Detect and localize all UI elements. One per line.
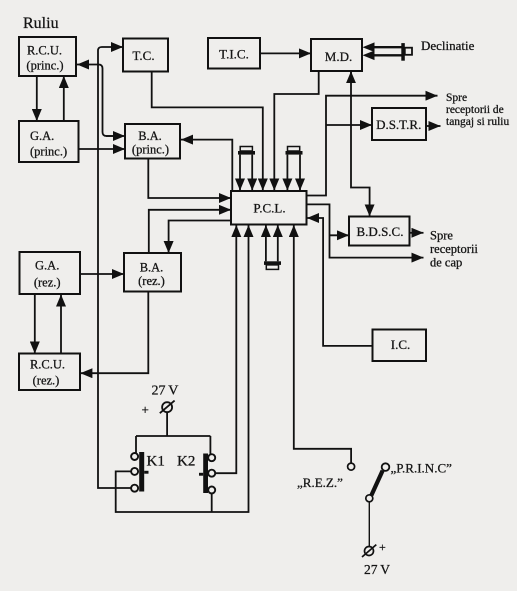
svg-text:K2: K2 — [177, 454, 195, 470]
svg-text:Spre: Spre — [446, 92, 467, 104]
svg-text:B.A.: B.A. — [138, 129, 162, 143]
switch contact R.E.Z. — [348, 463, 355, 470]
wire D.S.T.R. output arrow — [427, 125, 441, 127]
svg-text:B.D.S.C.: B.D.S.C. — [357, 224, 404, 239]
svg-text:K1: K1 — [147, 454, 165, 470]
wire P.C.L. top-left corner to B.A.(princ.) right side — [181, 140, 232, 191]
block D.S.T.R. — [372, 108, 426, 140]
wire M.D. bottom left down into P.C.L. top — [274, 71, 318, 190]
svg-text:T.I.C.: T.I.C. — [219, 47, 249, 62]
svg-text:Spre: Spre — [430, 229, 453, 243]
svg-text:M.D.: M.D. — [325, 49, 352, 64]
wire G.A.(rez.) to B.A.(rez.) — [80, 273, 124, 275]
plug P3 below P.C.L. — [264, 225, 281, 269]
svg-text:R.C.U.: R.C.U. — [27, 44, 62, 58]
svg-text:receptorii: receptorii — [430, 242, 478, 256]
wire G.A.(princ.) up to R.C.U.(princ.) — [63, 76, 65, 121]
block B.A. (rez.) — [124, 253, 181, 292]
svg-text:27 V: 27 V — [152, 384, 179, 399]
svg-text:(rez.): (rez.) — [138, 274, 165, 288]
svg-text:R.C.U.: R.C.U. — [30, 358, 65, 372]
svg-text:B.A.: B.A. — [140, 261, 164, 275]
declinatie shaft symbol — [363, 42, 413, 60]
svg-text:(rez.): (rez.) — [33, 373, 60, 387]
block R.C.U. (rez.) — [19, 354, 80, 391]
wire branch into D.S.T.R. — [326, 124, 372, 126]
plug P2 above P.C.L. — [286, 147, 303, 191]
wire P.C.L. left down into B.A.(rez.) top — [169, 221, 231, 254]
wire into R.C.U.(princ.) right side with jog down to B.A.(princ.) input — [99, 65, 114, 137]
wire G.A.(princ.) to B.A.(princ.) — [79, 148, 126, 150]
svg-text:I.C.: I.C. — [391, 337, 411, 352]
svg-text:receptorii de: receptorii de — [446, 104, 504, 116]
wire B.A.(rez.) top into P.C.L. left — [149, 210, 231, 253]
wire R.C.U.(rez.) up to G.A.(rez.) — [60, 295, 62, 354]
connector symbol 27V top — [160, 401, 175, 414]
relay contact K1 — [131, 452, 148, 492]
wire P.C.L. bottom to bottom rail (K1 middle / K2 bottom net) — [116, 225, 249, 512]
plug P1 above P.C.L. — [238, 147, 255, 191]
wire branch into B.D.S.C. — [330, 234, 350, 236]
svg-text:P.C.L.: P.C.L. — [253, 201, 285, 216]
block T.I.C. — [208, 38, 260, 69]
svg-text:T.C.: T.C. — [132, 48, 154, 63]
wire B.D.S.C. output arrow — [410, 232, 424, 234]
wire P.C.L. right up to Spre-tangaj arrow — [307, 96, 438, 196]
svg-text:D.S.T.R.: D.S.T.R. — [376, 117, 421, 132]
svg-text:(princ.): (princ.) — [30, 145, 67, 159]
wire R.C.U.(princ.) down to G.A.(princ.) — [36, 76, 38, 121]
wire P.C.L. right down to Spre-de-cap arrow — [307, 204, 424, 257]
wire K1-bottom-contact to T.C. input (long left vertical) — [98, 47, 131, 488]
block T.C. — [123, 39, 168, 72]
svg-text:G.A.: G.A. — [35, 259, 59, 273]
wire B.A.(princ.) bottom into P.C.L. left — [148, 159, 231, 199]
svg-text:G.A.: G.A. — [30, 129, 54, 143]
block B.D.S.C. — [349, 217, 410, 246]
wire T.I.C. to M.D. — [261, 52, 312, 54]
wire I.C. to P.C.L. right side — [307, 218, 373, 346]
block P.C.L. — [231, 191, 307, 225]
block B.A. (princ.) — [125, 124, 180, 159]
svg-text:27 V: 27 V — [364, 562, 390, 577]
block G.A. (rez.) — [20, 252, 81, 294]
svg-text:Declinatie: Declinatie — [421, 38, 475, 53]
block G.A. (princ.) — [19, 121, 79, 162]
svg-text:Ruliu: Ruliu — [23, 15, 59, 32]
svg-text:+: + — [142, 402, 149, 417]
wire T.C. down and right into P.C.L. top — [152, 72, 263, 191]
svg-text:+: + — [379, 540, 386, 554]
relay contact K2 — [199, 454, 215, 494]
switch contact P.R.I.N.C with lever — [366, 463, 390, 501]
wire P.C.L. bottom to K2 middle contact — [215, 225, 236, 473]
wire up into M.D. bottom and down to B.D.S.C. top — [350, 71, 352, 83]
block M.D. — [311, 39, 362, 71]
svg-text:„P.R.I.N.C”: „P.R.I.N.C” — [391, 461, 453, 476]
svg-text:tangaj si ruliu: tangaj si ruliu — [446, 116, 509, 128]
svg-text:(princ.): (princ.) — [26, 59, 63, 73]
connector symbol 27V bottom — [362, 545, 376, 557]
wire B.A.(rez.) bottom into R.C.U.(rez.) right side — [80, 292, 148, 374]
wire 27V to K1/K2 rail — [136, 412, 210, 454]
block I.C. — [373, 330, 427, 362]
wire switch to bottom 27V connector — [368, 502, 370, 547]
svg-text:(rez.): (rez.) — [34, 276, 61, 290]
block R.C.U. (princ.) — [19, 37, 76, 76]
svg-text:„R.E.Z.”: „R.E.Z.” — [297, 475, 343, 490]
wire P.C.L. bottom down to R.E.Z. contact — [294, 225, 351, 463]
svg-text:de cap: de cap — [430, 256, 462, 270]
wire G.A.(rez.) down to R.C.U.(rez.) — [34, 295, 36, 354]
svg-text:(princ.): (princ.) — [132, 143, 169, 157]
